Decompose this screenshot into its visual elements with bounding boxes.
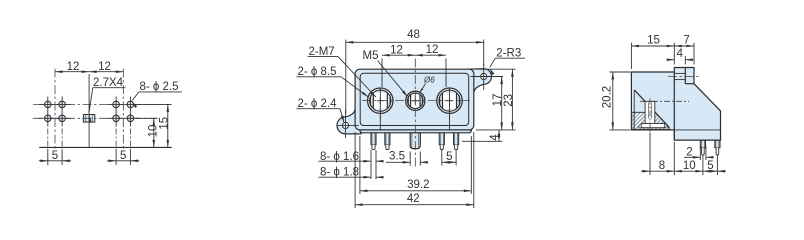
svg-text:Ø6: Ø6	[423, 76, 435, 85]
svg-text:2-R3: 2-R3	[496, 48, 521, 60]
svg-text:8: 8	[659, 160, 665, 172]
svg-text:15: 15	[159, 117, 171, 130]
svg-text:23: 23	[503, 94, 515, 107]
svg-text:15: 15	[647, 35, 660, 47]
svg-text:7: 7	[683, 35, 689, 47]
svg-text:39.2: 39.2	[407, 179, 429, 191]
svg-text:20.2: 20.2	[602, 86, 614, 108]
svg-text:42: 42	[407, 193, 420, 205]
svg-text:3.5: 3.5	[389, 150, 405, 162]
svg-text:10: 10	[683, 160, 696, 172]
svg-text:12: 12	[98, 61, 111, 73]
svg-text:12: 12	[426, 44, 439, 56]
svg-text:5: 5	[52, 150, 58, 162]
svg-text:5: 5	[707, 160, 713, 172]
svg-text:12: 12	[390, 44, 403, 56]
svg-text:2: 2	[686, 146, 692, 158]
svg-text:M5: M5	[363, 50, 379, 62]
svg-text:4: 4	[677, 48, 684, 60]
svg-text:4: 4	[489, 134, 501, 141]
svg-text:12: 12	[67, 61, 80, 73]
svg-text:48: 48	[407, 29, 420, 41]
svg-text:8- ϕ 2.5: 8- ϕ 2.5	[140, 81, 179, 93]
svg-text:5: 5	[120, 150, 126, 162]
